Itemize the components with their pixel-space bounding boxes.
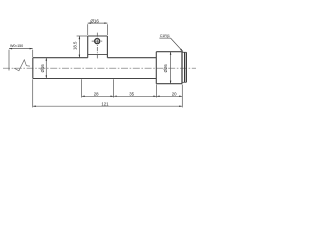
- wire main horizontal centerline: [3, 67, 196, 69]
- wire step face of large section: [155, 52, 157, 84]
- wire left end face: [32, 58, 34, 79]
- wire large section top edge: [156, 51, 182, 53]
- wire large section bottom edge: [156, 83, 182, 85]
- svg-text:35: 35: [129, 92, 134, 97]
- dimension W0=150 overall with break: [9, 48, 33, 71]
- wire shaft bottom edge: [33, 78, 157, 80]
- svg-text:18.5: 18.5: [72, 41, 77, 50]
- wire boss left edge: [87, 36, 89, 58]
- dimension 121 overall length: [33, 79, 183, 107]
- node hole circle in boss: [95, 39, 100, 44]
- dimension 28: [82, 79, 117, 97]
- dimension 35: [114, 85, 157, 98]
- wire stub top edge: [182, 51, 186, 53]
- wire boss base intersection line: [88, 54, 108, 56]
- wire boss vertical axis centerline: [96, 33, 98, 59]
- wire shaft top edge middle section: [107, 57, 156, 59]
- dimension boss width D16: [88, 22, 108, 35]
- svg-text:W0=150: W0=150: [10, 44, 23, 48]
- node break zigzag long-break symbol: [14, 60, 30, 71]
- wire boss top edge: [88, 35, 108, 37]
- dimension large section diameter D26: [170, 52, 172, 84]
- wire stub inner edge: [184, 52, 186, 82]
- wire large section right face: [181, 52, 183, 84]
- svg-text:Ø16: Ø16: [90, 18, 99, 23]
- svg-text:121: 121: [101, 101, 109, 106]
- svg-text:20: 20: [172, 92, 177, 97]
- wire shaft top edge left section: [33, 57, 88, 59]
- wire boss right edge: [106, 36, 108, 58]
- svg-text:Ø16: Ø16: [40, 64, 45, 73]
- wire stub right face: [185, 52, 187, 82]
- svg-text:Ø26: Ø26: [163, 64, 168, 73]
- dimension left shaft diameter D16: [46, 58, 48, 79]
- wire hole horizontal centerline: [92, 40, 103, 42]
- svg-text:28: 28: [94, 92, 99, 97]
- svg-text:C1R(1: C1R(1: [160, 34, 170, 38]
- wire stub bottom edge: [182, 81, 186, 83]
- dimension boss height 18.5: [77, 36, 88, 58]
- leader arrowhead: [180, 49, 183, 52]
- dimension 20: [157, 85, 183, 108]
